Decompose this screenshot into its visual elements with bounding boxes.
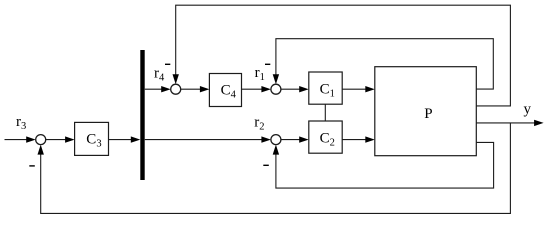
arrowhead into C2 [299,136,309,142]
arrowhead up into S2 bottom [273,145,279,155]
svg-text:P: P [424,106,432,122]
minus sign at S2 [263,164,269,166]
arrowhead into C4 [200,86,210,92]
svg-text:y: y [524,102,532,118]
summing junction S3 (r3) [36,135,46,145]
arrowhead y output [534,120,544,126]
minus sign at S1 [265,63,270,65]
signal distribution bar [140,50,144,180]
arrowhead into S3 [26,136,36,142]
wire bar to S4 (r4 row) [145,88,163,90]
wire S2 to C2 [281,139,301,141]
wire outer top feedback loop [176,5,511,106]
wire C4 to S1 [242,88,264,90]
block C4 [209,74,241,107]
wire inner bottom feedback loop [276,142,494,188]
arrowhead into bar [131,136,141,142]
wire outer bottom feedback loop [41,123,511,213]
wire y output [476,122,536,124]
wire C1 to P [342,88,367,90]
block C2 [309,121,342,153]
arrowhead C2 into P [365,136,375,142]
arrowhead into C3 [65,136,75,142]
summing junction S4 (r4) [171,84,181,94]
wire r3 input [5,139,29,141]
plant block P [375,67,477,156]
arrowhead into S4 [161,86,171,92]
summing junction S2 (r2) [271,135,281,145]
wire inner top feedback loop [276,39,493,89]
minus sign at S4 [165,63,170,65]
arrowhead up into S3 bottom [38,145,44,155]
wire S1 to C1 [281,88,301,90]
block C3 [75,122,109,155]
wire S4 to C4 [181,88,202,90]
arrowhead into C1 [299,86,309,92]
summing junction S1 (r1) [271,84,281,94]
arrowhead down into S4 top [173,74,179,84]
arrowhead down into S1 top [273,74,279,84]
wire C2 to P [342,139,367,141]
arrowhead into S1 [261,86,271,92]
arrowhead into S2 [261,136,271,142]
wire S3 to C3 [46,139,67,141]
wire bar to S2 (r2 row) [145,139,263,141]
minus sign at S3 [29,165,35,167]
wire C3 to bar [109,139,133,141]
block C1 [309,72,342,104]
wire C1-C2 interconnect [324,104,326,121]
arrowhead C1 into P [365,86,375,92]
